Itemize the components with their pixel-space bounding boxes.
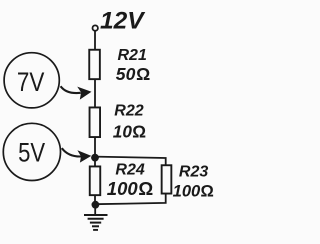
resistor R24	[90, 166, 101, 195]
wire	[95, 157, 166, 165]
resistor R23	[162, 165, 172, 193]
node A junction dot	[91, 154, 99, 162]
probe circle 5V	[3, 123, 60, 180]
wire	[94, 158, 96, 167]
svg-text:12V: 12V	[100, 8, 146, 35]
wire	[94, 137, 96, 158]
7V probe arrow	[61, 86, 92, 99]
svg-text:10Ω: 10Ω	[113, 121, 146, 141]
svg-text:R21: R21	[118, 47, 147, 64]
probe circle 7V	[4, 53, 59, 108]
svg-text:R23: R23	[179, 164, 208, 181]
svg-text:100Ω: 100Ω	[173, 181, 214, 200]
wire	[94, 31, 96, 50]
resistor R22	[90, 107, 101, 137]
svg-text:R22: R22	[114, 102, 143, 119]
terminal 12V	[93, 25, 98, 30]
wire	[95, 194, 166, 204]
ground	[84, 215, 108, 230]
svg-text:100Ω: 100Ω	[107, 178, 154, 199]
svg-text:5V: 5V	[18, 137, 45, 167]
wire	[94, 205, 96, 215]
svg-text:50Ω: 50Ω	[116, 64, 150, 84]
wire	[94, 80, 96, 108]
wire	[94, 195, 96, 204]
svg-text:R24: R24	[115, 162, 144, 179]
node B junction dot	[92, 201, 100, 209]
resistor R21	[89, 50, 100, 79]
5V probe arrow	[62, 148, 92, 163]
svg-text:7V: 7V	[17, 67, 45, 97]
